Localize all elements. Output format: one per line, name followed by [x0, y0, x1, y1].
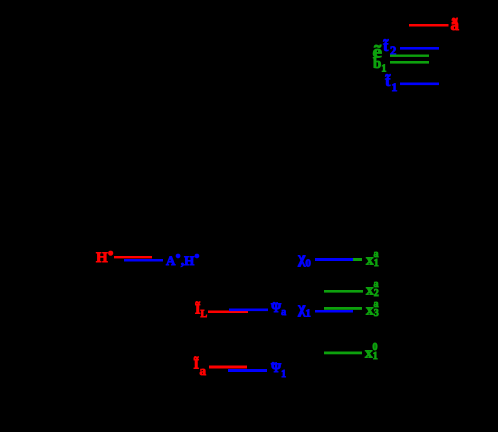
level line b1 (green) [390, 61, 429, 64]
level line chi1 (blue) [315, 310, 353, 313]
level line I a (red) [209, 366, 247, 369]
level line A,H (blue) [124, 259, 163, 262]
svg-text:xa3: xa3 [366, 299, 379, 319]
svg-text:x01: x01 [365, 342, 378, 362]
svg-text:˜: ˜ [273, 301, 278, 317]
svg-text:xa2: xa2 [366, 279, 379, 299]
level line a (red, top right) [409, 24, 449, 27]
level line I L (red) [208, 311, 248, 314]
svg-text:xa1: xa1 [366, 249, 379, 269]
level line t2 (blue) [400, 47, 439, 50]
level line H (red) [114, 256, 152, 258]
level line x 0 1 (green) [324, 352, 362, 355]
level line t1 (blue) [400, 83, 439, 86]
level line chi0 continuation (green) [353, 258, 362, 261]
svg-text:˜: ˜ [272, 361, 277, 377]
level line Psi 1 (blue) [228, 369, 267, 372]
level line e (green) [390, 55, 429, 57]
level line x a 3 (green) [324, 307, 362, 310]
level line x a 2 (green) [324, 290, 363, 293]
level line Psi a (blue) [229, 309, 268, 312]
level line chi0 (blue) [315, 258, 353, 261]
